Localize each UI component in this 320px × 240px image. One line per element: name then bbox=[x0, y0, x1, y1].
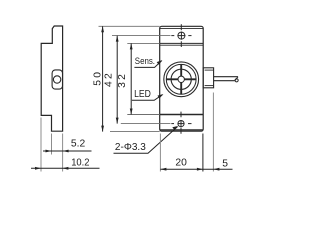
front view top cap separation upper line bbox=[160, 42, 204, 44]
extension line left of 10.2 (x=41) bbox=[40, 118, 42, 172]
bottom hole vertical centerline ticks bbox=[180, 112, 182, 118]
dimension line 50 bbox=[102, 26, 104, 131]
sensor face second ring bbox=[166, 64, 196, 94]
connector block bbox=[203, 68, 213, 88]
svg-text:2-Φ3.3: 2-Φ3.3 bbox=[115, 142, 146, 153]
2-phi3.3 leader underline bbox=[114, 127, 178, 153]
svg-text:Sens.: Sens. bbox=[135, 56, 155, 67]
dimension line 10.2 bbox=[31, 167, 100, 169]
extension line bottom cap (32) bbox=[127, 114, 159, 116]
arrow 10.2 left bbox=[35, 167, 41, 170]
dimension line 20 and 5 bbox=[160, 168, 232, 170]
LED leader underline bbox=[132, 95, 163, 101]
top screw hole M1 bbox=[177, 32, 185, 40]
arrow 5.2 right (outside pointing left) bbox=[63, 150, 69, 153]
cable end loop bbox=[235, 79, 238, 82]
sensor face outer ring bbox=[164, 62, 199, 97]
sensor face center circle bbox=[178, 76, 184, 82]
extension line 20 left (x=160.4) bbox=[159, 134, 161, 172]
front view bottom cap separation line bbox=[160, 114, 204, 116]
side view mounting slot (obround) bbox=[52, 70, 62, 89]
front view top inner line bbox=[160, 27, 204, 29]
arrow 20 left bbox=[160, 168, 166, 171]
arrow 50 bottom bbox=[101, 126, 104, 132]
arrow 20 right bbox=[197, 168, 203, 171]
dimension line 5.2 bbox=[43, 150, 92, 152]
svg-text:5.2: 5.2 bbox=[71, 139, 86, 150]
arrow 50 top bbox=[101, 26, 104, 32]
extension line bottom hole center (42) bbox=[121, 123, 171, 125]
svg-text:20: 20 bbox=[175, 158, 187, 169]
svg-text:50: 50 bbox=[93, 70, 104, 86]
extension line cap line (32) bbox=[127, 42, 159, 44]
sensor face middle circle bbox=[171, 69, 191, 89]
extension line right of side view (x=62.6) bbox=[62, 134, 64, 172]
extension line 5 right (x=213.4) bbox=[212, 93, 214, 172]
front view body bbox=[160, 26, 204, 131]
extension line top of body (50) bbox=[99, 25, 160, 27]
2-phi3.3 leader arrow bbox=[172, 126, 178, 130]
top hole centerline dashes bbox=[171, 35, 174, 37]
extension line bottom of body (50) bbox=[110, 131, 160, 133]
top hole vertical centerline ticks bbox=[180, 24, 182, 30]
side view body outline bbox=[41, 26, 62, 131]
svg-text:10.2: 10.2 bbox=[71, 158, 90, 169]
cable lines bbox=[214, 76, 238, 78]
arrow 32 top bbox=[130, 43, 133, 49]
arrow 5.2 left (outside pointing right) bbox=[46, 150, 52, 153]
bottom hole centerline dashes bbox=[171, 123, 174, 125]
LED arrow bbox=[158, 94, 164, 99]
dimension line 42 bbox=[116, 36, 118, 124]
svg-text:42: 42 bbox=[103, 71, 114, 87]
svg-text:32: 32 bbox=[117, 72, 128, 88]
sensor face cross spokes bbox=[167, 65, 196, 94]
bottom screw hole M2 bbox=[178, 120, 185, 127]
Sens. arrow bbox=[157, 60, 163, 65]
arrow 5 (outside pointing left) bbox=[213, 168, 219, 171]
front view top cap separation lower line bbox=[160, 44, 204, 46]
side view slot hole circle bbox=[53, 76, 60, 83]
extension line top hole center (42) bbox=[112, 35, 171, 37]
dimension line 32 bbox=[130, 43, 132, 114]
extension line for 5.2 left (x=51.5) bbox=[51, 134, 53, 155]
front view bottom inner line bbox=[160, 129, 204, 131]
extension line 20 right (x=202.9) bbox=[202, 134, 204, 172]
connector block inner lines bbox=[205, 69, 214, 71]
arrow 42 top bbox=[116, 36, 119, 42]
arrow 32 bottom bbox=[130, 109, 133, 115]
svg-text:5: 5 bbox=[222, 158, 228, 169]
Sens. leader underline bbox=[134, 61, 161, 68]
arrow 10.2 right bbox=[62, 167, 68, 170]
cable end diagonal bbox=[235, 77, 238, 81]
svg-text:LED: LED bbox=[134, 89, 151, 100]
arrow 42 bottom bbox=[116, 118, 119, 124]
